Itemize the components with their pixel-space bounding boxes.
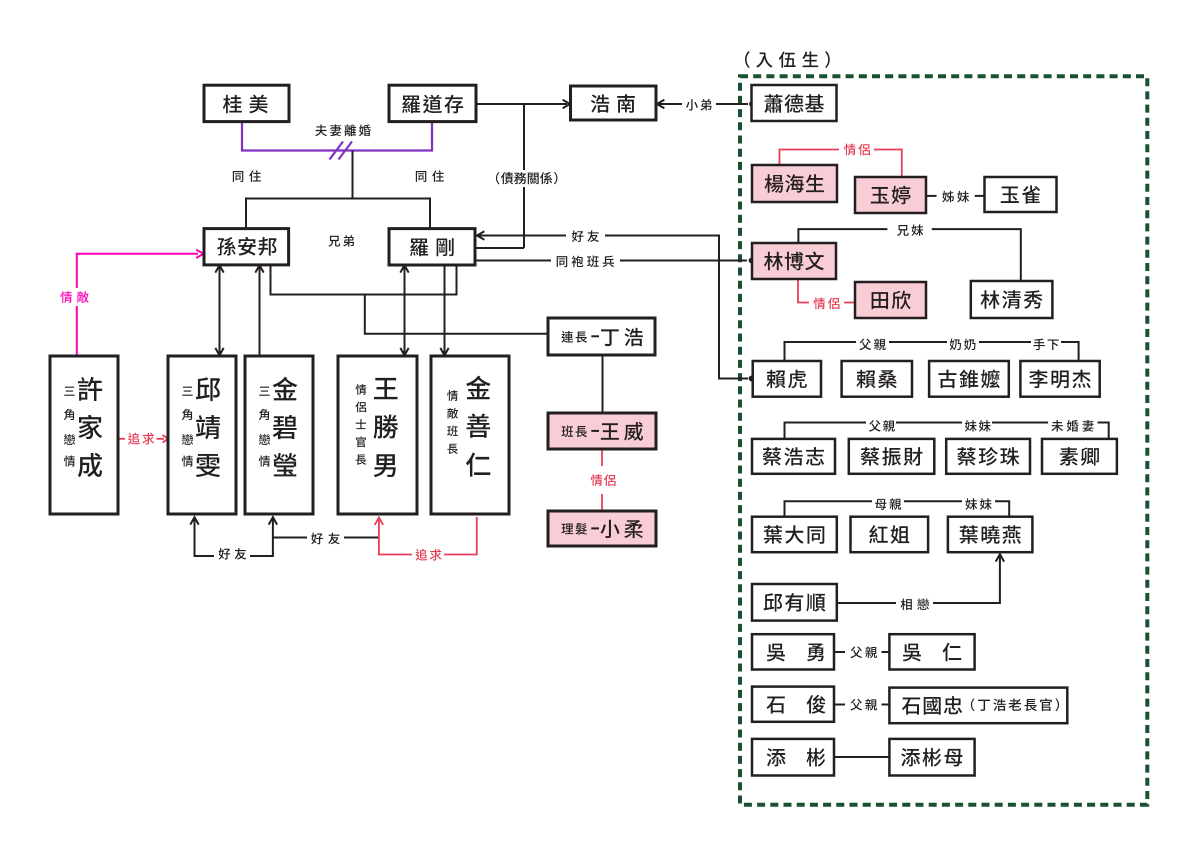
arrowhead down 王勝男 [400, 348, 408, 355]
side 情侶士官長 [355, 384, 366, 465]
label 相戀 [901, 598, 930, 610]
label 同住 right [416, 170, 444, 182]
box 羅道存 [389, 85, 476, 121]
name 許家成 [78, 377, 102, 477]
box 許家成 [50, 356, 118, 514]
wire 羅道存-浩南 [476, 103, 567, 105]
arrowhead 情敵 into 孫安邦 [196, 250, 203, 258]
name 賴桑 [856, 370, 896, 388]
wire 相戀 b [933, 556, 1000, 603]
dash 理髮-小柔 [591, 527, 599, 529]
label 妹妹 葉 [965, 498, 991, 510]
junction dot 賴虎 [749, 376, 755, 382]
name 添彬母 [901, 748, 962, 767]
name 田欣 [872, 291, 911, 310]
box 理髮小柔 pink [548, 511, 656, 546]
name 金碧瑩 [273, 377, 298, 477]
wire debt vertical upper [523, 104, 525, 170]
box 王勝男 [338, 356, 417, 514]
box 玉雀 [985, 177, 1057, 212]
wire 蔡 bracket a [785, 423, 867, 439]
name 金善仁 [466, 376, 491, 477]
box 金善仁 [431, 356, 509, 514]
wire 兄妹 b [932, 229, 1021, 281]
arrowhead up 金碧瑩 bottom [269, 517, 277, 524]
name 吳勇 [767, 643, 824, 661]
label 情敵 [60, 291, 88, 303]
box 桂美 [204, 85, 289, 121]
name 添彬 [767, 748, 826, 767]
box 葉曉燕 [948, 517, 1033, 553]
name 李明杰 [1029, 370, 1091, 389]
name 石俊 [766, 695, 825, 714]
arrowhead up 孫安邦 a [215, 265, 223, 272]
wire 丁浩 link [365, 295, 548, 334]
name 蕭德基 [764, 94, 824, 113]
name 班長 [561, 426, 587, 438]
box 林清秀 [971, 281, 1053, 318]
wire 追求 red left [379, 519, 412, 555]
arrowhead into 浩南 [563, 100, 570, 108]
box 邱靖雯 [168, 356, 236, 514]
wire 姊妹 b [975, 195, 985, 197]
name 小柔 [600, 520, 642, 538]
label 兄弟 [328, 235, 354, 247]
box 添彬母 [889, 739, 974, 776]
dash 班長-王威 [591, 430, 599, 432]
wire 姊妹 a [926, 195, 937, 197]
label 同住 left [233, 170, 261, 182]
divorce slash 2 [339, 142, 353, 160]
box 古錐嬤 [929, 361, 1009, 397]
wire debt horizontal [476, 247, 524, 249]
name 王勝男 [374, 378, 399, 477]
wire 好友 U right [250, 518, 273, 556]
name 羅剛 [410, 238, 454, 256]
arrowhead red up 王勝男 [375, 518, 383, 525]
box 添彬 [752, 739, 834, 776]
wire 添彬-添彬母 [834, 756, 889, 758]
wire 蔡 bracket c [992, 422, 1048, 424]
wire 好友 a [477, 235, 566, 237]
wire 相戀 a [837, 602, 896, 604]
wire 羅剛-金善仁 [444, 266, 446, 355]
name 羅道存 [402, 95, 463, 114]
wire 好友 b [605, 236, 748, 379]
wire 葉 bracket b [904, 500, 962, 502]
label 妹妹 蔡 [965, 420, 991, 432]
box 賴桑 [842, 361, 912, 397]
box 浩南 [571, 86, 657, 120]
wire 同袍班兵 a [476, 260, 551, 262]
name 賴虎 [766, 370, 806, 389]
arrowhead into 羅剛 好友 [477, 231, 484, 239]
box 玉婷 pink [855, 177, 926, 213]
name 邱有順 [764, 593, 826, 612]
divorce slash 1 [330, 142, 344, 160]
wire 金碧瑩-孫安邦 [259, 266, 261, 356]
label 追求 left [128, 433, 154, 445]
label 父親 吳 [850, 646, 877, 658]
box 連長丁浩 [548, 318, 655, 355]
wire 石 dash a [834, 704, 845, 706]
name 葉大同 [764, 525, 824, 544]
title 入伍生 [745, 51, 830, 68]
arrowhead into 浩南 right [657, 100, 664, 108]
wire 羅剛-王勝男 [404, 266, 406, 355]
label 未婚妻 [1051, 420, 1093, 432]
wire 兄妹 a [798, 229, 887, 243]
wire 蔡 bracket d [1098, 423, 1109, 439]
box 邱有順 [752, 584, 837, 621]
name 紅姐 [869, 525, 909, 544]
label 情侶 王威 [591, 474, 616, 486]
box 葉大同 [752, 517, 837, 553]
wire 丁浩-王威 [602, 355, 604, 413]
name 丁浩 [601, 328, 643, 346]
box 紅姐 [851, 517, 929, 553]
name 林博文 [764, 252, 824, 271]
wire 葉 bracket a [785, 501, 873, 516]
label 情侶 楊玉 [844, 144, 870, 156]
name 浩南 [591, 94, 635, 112]
wire 同袍班兵 b [620, 260, 747, 262]
label 父親 蔡 [869, 420, 895, 432]
name 石國忠 [902, 696, 962, 715]
wire 情侶 red 林-田 b [844, 302, 855, 304]
name 蔡珍珠 [957, 447, 1019, 466]
label 同袍班兵 [557, 256, 614, 268]
name 林清秀 [981, 290, 1043, 309]
arrowhead down 邱靖雯 [215, 348, 223, 355]
wire 情侶 red 楊-玉 a [780, 150, 840, 166]
box 楊海生 pink [752, 165, 837, 202]
wire 葉 bracket c [995, 501, 1009, 516]
side 三角戀情 金 [259, 387, 270, 467]
label 兄妹 [897, 224, 923, 236]
wire center drop [352, 151, 354, 199]
box 金碧瑩 [245, 356, 313, 514]
wire 情敵 vertical lower [76, 306, 78, 356]
box 石俊 [752, 687, 834, 722]
box 素卿 [1042, 439, 1117, 474]
arrowhead up 葉曉燕 [996, 554, 1004, 561]
box 羅剛 [389, 229, 475, 265]
wire divorce purple [242, 121, 432, 151]
name 古錐嬤 [939, 370, 1000, 389]
wire 賴 bracket c [979, 341, 1031, 343]
label 好友 mid [311, 533, 340, 545]
name 蔡浩志 [763, 447, 824, 466]
arrowhead up 孫安邦 b [255, 265, 263, 272]
label 小弟 [686, 99, 712, 111]
box 林博文 pink [752, 243, 836, 279]
box 蔡振財 [849, 439, 935, 474]
label 父親 賴 [859, 339, 885, 351]
name 理髮 [561, 523, 586, 535]
side 情敵班長 [447, 390, 458, 454]
box 賴虎 [753, 361, 821, 397]
wire 好友 mid a [273, 537, 307, 539]
name 連長 [561, 331, 587, 343]
wire 吳 dash a [834, 651, 845, 653]
wire 賴 bracket b [889, 341, 947, 343]
box 石國忠 [889, 688, 1067, 724]
side 三角戀情 邱 [182, 387, 193, 467]
wire loop 孫安邦-羅剛 [271, 264, 457, 295]
box 田欣 pink [855, 282, 926, 318]
box 吳仁 [889, 634, 974, 669]
label 情侶 林田 [813, 298, 839, 310]
dashed enclosure 入伍生 group [740, 76, 1147, 805]
name 吳仁 [903, 643, 962, 662]
junction dot 蕭德基 [749, 101, 755, 107]
wire 小弟 a [657, 103, 682, 105]
arrowhead down 金善仁 [440, 348, 448, 355]
wire 情侶 red b [601, 494, 603, 511]
note 丁浩老長官 [971, 698, 1059, 711]
label 好友 羅剛 [572, 230, 599, 242]
wire 情侶 red a [601, 449, 603, 466]
box 李明杰 [1020, 361, 1099, 397]
label 母親 [875, 498, 901, 510]
arrowhead 追求 into 邱靖雯 [163, 435, 169, 443]
arrowhead up 羅剛 [400, 265, 408, 272]
label 奶奶 [950, 339, 976, 351]
wire debt vertical lower [523, 187, 525, 248]
wire 孫安邦-邱靖雯 [219, 266, 221, 355]
wire 情敵 upper [77, 254, 198, 288]
arrowhead up 邱靖雯 bottom [190, 517, 198, 524]
wire 好友 mid b [344, 537, 379, 539]
box 孫安邦 [204, 229, 289, 265]
wire 情侶 red 林-田 a [798, 279, 809, 303]
name 玉婷 [871, 186, 911, 205]
box 蕭德基 [752, 85, 837, 121]
label 手下 [1033, 339, 1058, 351]
box 蔡珍珠 [946, 439, 1030, 474]
name 玉雀 [1001, 185, 1040, 203]
name 孫安邦 [217, 237, 276, 256]
wire 追求 red right [444, 517, 477, 555]
label 父親 石 [850, 699, 877, 711]
name 邱靖雯 [196, 377, 220, 477]
box 班長王威 pink [548, 413, 656, 449]
name 王威 [601, 422, 643, 441]
wire family split [246, 199, 430, 230]
junction dot 林博文 [749, 258, 755, 264]
label 追求 red [416, 549, 442, 561]
wire 小弟 b [716, 103, 748, 105]
label 夫妻離婚 [315, 125, 371, 137]
wire 追求 dash left [118, 438, 126, 440]
wire 吳 dash b [882, 651, 890, 653]
wire 蔡 bracket b [896, 422, 962, 424]
side 三角戀情 許 [64, 387, 75, 467]
box 吳勇 [752, 634, 834, 669]
wire 情侶 red 楊-玉 b [874, 150, 902, 177]
box 蔡浩志 [752, 439, 835, 474]
name 蔡振財 [861, 447, 923, 466]
name 楊海生 [765, 174, 824, 193]
wire 賴 bracket d [1061, 342, 1079, 361]
wire 好友 U left [195, 518, 215, 556]
label 好友 bottom [219, 548, 247, 560]
name 素卿 [1060, 447, 1099, 466]
dash 連長-丁浩 [591, 335, 599, 337]
name 桂美 [223, 95, 268, 114]
label 姊妹 [942, 191, 969, 203]
name 葉曉燕 [960, 525, 1021, 544]
wire 石 dash b [882, 704, 890, 706]
label 債務關係 [496, 172, 557, 184]
wire 賴 bracket a [785, 342, 857, 361]
wire 追求 dash right [157, 438, 165, 440]
